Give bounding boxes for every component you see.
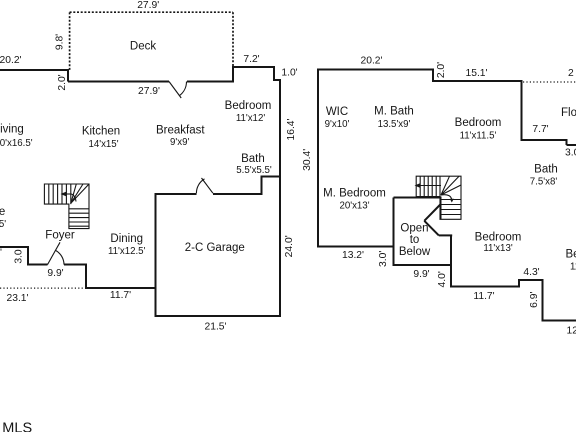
svg-text:Deck: Deck bbox=[130, 41, 156, 53]
deck dashed right bbox=[232, 12, 234, 67]
stairs right arrow bbox=[419, 185, 441, 187]
svg-text:Living: Living bbox=[0, 123, 24, 135]
wall diagonal upper arm bbox=[424, 205, 440, 221]
svg-text:9.8': 9.8' bbox=[54, 34, 65, 50]
svg-text:14'x15': 14'x15' bbox=[88, 139, 118, 150]
svg-text:13.5'x9': 13.5'x9' bbox=[378, 119, 411, 130]
wall right 13.2 bbox=[317, 246, 394, 248]
svg-text:20'x13': 20'x13' bbox=[339, 200, 369, 211]
wall 9.9 right unit bbox=[394, 264, 453, 266]
wall right down to 7.7 bbox=[521, 80, 523, 140]
wall right 2.0 step bbox=[432, 69, 434, 82]
svg-text:13.2': 13.2' bbox=[342, 250, 364, 261]
svg-text:11'x11.5': 11'x11.5' bbox=[460, 130, 497, 141]
svg-text:12.1': 12.1' bbox=[567, 326, 576, 337]
wall up to 7.2 bbox=[232, 67, 234, 83]
wall 7.2 bbox=[232, 66, 274, 68]
dotted right top bbox=[523, 81, 576, 83]
svg-text:11.7': 11.7' bbox=[110, 290, 131, 301]
wall garage top right of door bbox=[213, 193, 263, 195]
svg-text:3.0': 3.0' bbox=[565, 148, 576, 159]
svg-text:Open: Open bbox=[400, 223, 428, 235]
wall foyer step vertical bbox=[85, 264, 87, 290]
svg-text:20'x16.5': 20'x16.5' bbox=[0, 138, 33, 149]
svg-text:9'x10': 9'x10' bbox=[325, 119, 350, 130]
svg-text:7.7': 7.7' bbox=[532, 124, 548, 135]
svg-text:2: 2 bbox=[568, 68, 574, 79]
stairs left outline bbox=[44, 184, 89, 229]
wall 2.0 step bbox=[67, 69, 69, 82]
svg-text:Breakfast: Breakfast bbox=[156, 125, 205, 137]
wall right 7.7 bbox=[521, 139, 568, 141]
wall 6.9 bbox=[542, 279, 544, 322]
svg-text:24.0': 24.0' bbox=[284, 235, 295, 257]
svg-text:16.4': 16.4' bbox=[286, 118, 297, 140]
svg-text:11'x12': 11'x12' bbox=[236, 113, 266, 124]
svg-text:7.5'x8': 7.5'x8' bbox=[530, 176, 558, 187]
stairs left arc arrow bbox=[72, 194, 77, 202]
foyer door arc bbox=[56, 250, 65, 264]
svg-text:4.3': 4.3' bbox=[523, 267, 539, 278]
deck door leaf bbox=[169, 82, 181, 99]
stairs left arrow bbox=[65, 193, 72, 195]
svg-text:MLS: MLS bbox=[2, 420, 32, 432]
wall garage top left of door bbox=[155, 193, 197, 195]
svg-text:5.5'x5.5': 5.5'x5.5' bbox=[236, 165, 272, 176]
wall right exits east bbox=[566, 144, 576, 146]
svg-text:27.9': 27.9' bbox=[138, 86, 160, 97]
stairs left treads horizontal-run bbox=[49, 184, 71, 204]
svg-text:Dining: Dining bbox=[110, 233, 143, 245]
svg-text:to: to bbox=[410, 234, 420, 246]
wall stairs west below bbox=[440, 197, 442, 220]
svg-text:9.9': 9.9' bbox=[47, 268, 63, 279]
svg-text:30.4': 30.4' bbox=[302, 149, 313, 171]
stairs right outline bbox=[416, 176, 461, 219]
svg-text:15.1': 15.1' bbox=[465, 68, 487, 79]
wall 4.3 bbox=[518, 279, 544, 281]
garage door arc bbox=[196, 179, 204, 193]
svg-text:3.0: 3.0 bbox=[14, 249, 25, 264]
svg-text:Bedroom: Bedroom bbox=[566, 249, 576, 261]
wall 4.0 vertical bbox=[450, 234, 452, 287]
wall open-below west bbox=[393, 198, 395, 267]
wall 11.7 right unit bbox=[451, 285, 520, 287]
wall top-left 20.2 bbox=[0, 69, 68, 71]
svg-text:20.2': 20.2' bbox=[0, 55, 22, 66]
wall right small step bbox=[565, 139, 567, 145]
dotted line 23.1 bbox=[0, 287, 86, 289]
wall east left-unit bbox=[279, 79, 281, 317]
svg-text:27.9': 27.9' bbox=[137, 0, 159, 11]
svg-text:11'x13': 11'x13' bbox=[570, 261, 576, 272]
svg-text:11'x13': 11'x13' bbox=[483, 243, 513, 254]
wall deck bottom right bbox=[187, 81, 234, 83]
wall right west bbox=[317, 69, 319, 248]
svg-text:11.7': 11.7' bbox=[473, 291, 494, 302]
stairs right treads bbox=[420, 176, 436, 196]
svg-text:1.0': 1.0' bbox=[281, 67, 297, 78]
wall bath step vertical bbox=[261, 176, 263, 196]
wall garage left bbox=[155, 193, 157, 317]
deck dashed top bbox=[70, 11, 233, 13]
svg-text:2.0': 2.0' bbox=[436, 62, 447, 78]
svg-text:e: e bbox=[0, 206, 5, 218]
svg-text:Bedroom: Bedroom bbox=[455, 117, 502, 129]
wall left mid 0-26.5 bbox=[0, 246, 29, 248]
svg-text:23.1': 23.1' bbox=[6, 293, 28, 304]
svg-text:Bath: Bath bbox=[241, 153, 265, 165]
wall right top 20.2 bbox=[317, 69, 434, 71]
stairs right arc arrow bbox=[441, 195, 452, 201]
wall 12 exits east bbox=[543, 320, 576, 322]
svg-text:Below: Below bbox=[399, 246, 431, 258]
wall 11.7 bottom bbox=[86, 287, 156, 289]
svg-text:Bedroom: Bedroom bbox=[475, 231, 522, 243]
svg-text:20.2': 20.2' bbox=[360, 56, 382, 67]
svg-text:4.0': 4.0' bbox=[437, 271, 448, 287]
svg-text:2.0': 2.0' bbox=[57, 74, 68, 90]
wall foyer left of door bbox=[27, 264, 47, 266]
svg-text:21.5': 21.5' bbox=[204, 321, 226, 332]
svg-text:9'x9': 9'x9' bbox=[170, 137, 189, 148]
wall foyer right of door bbox=[64, 264, 87, 266]
stairs right vertical-run treads bbox=[442, 200, 462, 215]
stairs right division bbox=[439, 176, 441, 196]
wall deck bottom left bbox=[68, 81, 169, 83]
svg-text:Bedroom: Bedroom bbox=[225, 100, 272, 112]
svg-text:9.9': 9.9' bbox=[413, 269, 429, 280]
svg-text:': ' bbox=[0, 248, 2, 259]
svg-text:5': 5' bbox=[0, 219, 6, 230]
wall right 15.1 bbox=[432, 80, 523, 82]
wall down 1.4 bbox=[273, 66, 275, 80]
svg-text:Kitchen: Kitchen bbox=[82, 125, 120, 137]
svg-text:M. Bedroom: M. Bedroom bbox=[323, 187, 386, 199]
svg-text:11'x12.5': 11'x12.5' bbox=[108, 246, 146, 257]
wall 3.0 vertical bbox=[27, 246, 29, 266]
svg-text:Floor: Floor bbox=[561, 107, 576, 119]
wall 4.3 step up bbox=[518, 279, 520, 288]
wall bath bottom bbox=[261, 176, 282, 178]
svg-text:WIC: WIC bbox=[326, 106, 348, 118]
svg-text:Bath: Bath bbox=[534, 163, 558, 175]
svg-text:2-C Garage: 2-C Garage bbox=[185, 242, 245, 254]
stairs left fan radials bbox=[71, 184, 89, 203]
wall open-below top bbox=[394, 197, 442, 199]
right unit walls bbox=[317, 69, 576, 322]
stairs left vertical-run treads bbox=[69, 209, 89, 226]
wall diagonal lower arm bbox=[424, 221, 439, 236]
wall 1.0 bbox=[273, 79, 281, 81]
deck door arc bbox=[179, 82, 186, 96]
svg-text:M. Bath: M. Bath bbox=[374, 105, 414, 117]
wall notch horizontal bbox=[439, 234, 452, 236]
svg-text:Foyer: Foyer bbox=[45, 229, 75, 241]
deck dashed left bbox=[69, 12, 71, 70]
svg-text:3.0': 3.0' bbox=[378, 251, 389, 267]
svg-text:6.9': 6.9' bbox=[529, 292, 540, 308]
wall garage bottom 21.5 bbox=[155, 315, 282, 317]
garage door leaf bbox=[202, 178, 213, 193]
foyer door leaf bbox=[48, 242, 61, 264]
stairs right fan radials bbox=[441, 176, 461, 195]
svg-text:7.2': 7.2' bbox=[243, 54, 259, 65]
